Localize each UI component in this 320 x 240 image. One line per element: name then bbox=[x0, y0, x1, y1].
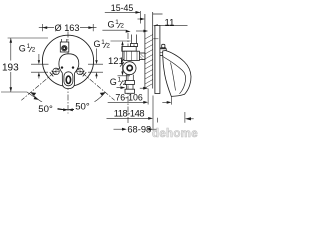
svg-text:2: 2 bbox=[123, 80, 127, 87]
svg-text:G: G bbox=[19, 43, 26, 53]
svg-text:50°: 50° bbox=[38, 104, 53, 115]
svg-text:1: 1 bbox=[101, 39, 105, 46]
svg-text:68-98: 68-98 bbox=[127, 125, 151, 135]
svg-text:2: 2 bbox=[120, 23, 124, 30]
svg-text:15-45: 15-45 bbox=[111, 3, 134, 13]
svg-text:dehome: dehome bbox=[152, 128, 198, 140]
svg-text:1: 1 bbox=[115, 19, 119, 26]
svg-text:2: 2 bbox=[106, 42, 110, 49]
svg-text:2: 2 bbox=[32, 47, 36, 54]
svg-text:G: G bbox=[110, 77, 117, 87]
svg-text:121: 121 bbox=[108, 56, 124, 67]
svg-text:Ø 163: Ø 163 bbox=[55, 23, 80, 33]
svg-text:118-148: 118-148 bbox=[114, 108, 145, 118]
svg-text:11: 11 bbox=[165, 17, 175, 28]
svg-text:50°: 50° bbox=[75, 102, 90, 113]
svg-text:1: 1 bbox=[118, 77, 122, 84]
svg-text:G: G bbox=[108, 19, 115, 29]
svg-text:G: G bbox=[94, 39, 101, 49]
svg-text:76-106: 76-106 bbox=[115, 92, 142, 102]
svg-text:1: 1 bbox=[27, 43, 31, 50]
svg-text:193: 193 bbox=[2, 63, 19, 74]
